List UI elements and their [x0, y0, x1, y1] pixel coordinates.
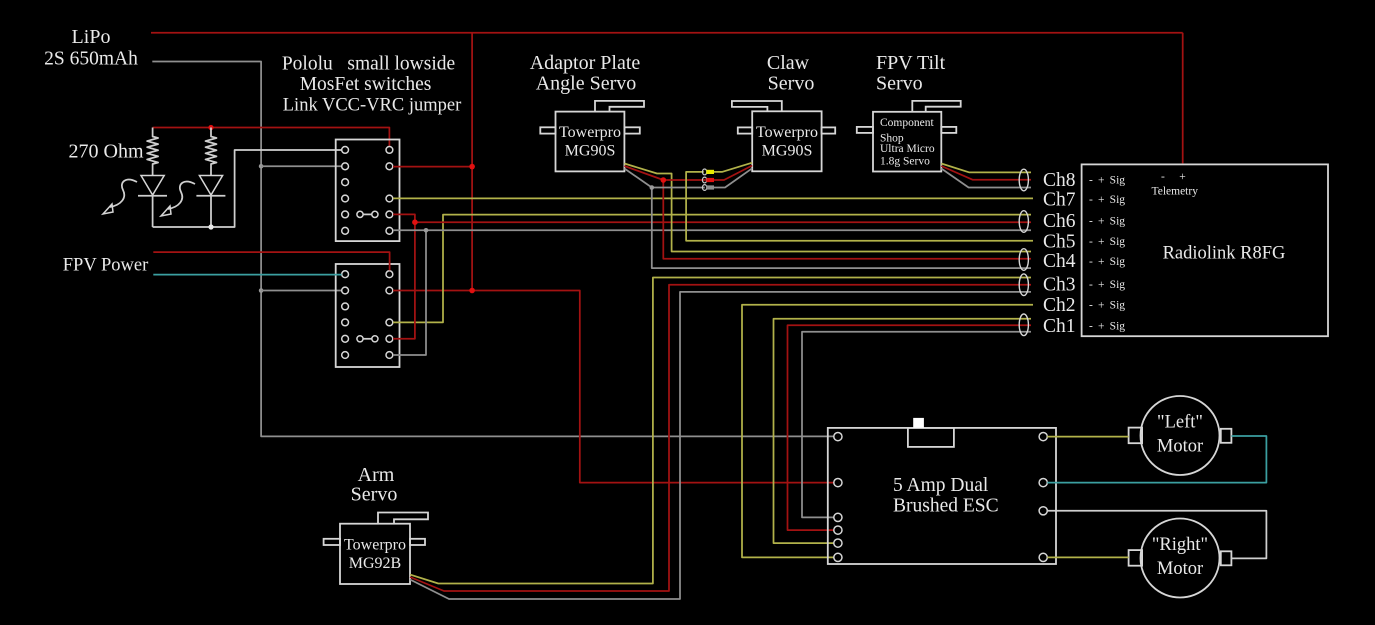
svg-text:FPV Tilt: FPV Tilt	[876, 52, 946, 74]
svg-text:"Right": "Right"	[1152, 535, 1208, 555]
motor Left	[1129, 396, 1232, 475]
receiver Radiolink R8FG	[1043, 164, 1328, 337]
svg-text:Towerpro: Towerpro	[756, 124, 818, 141]
svg-text:- + Sig: - + Sig	[1089, 279, 1125, 291]
svg-text:Telemetry: Telemetry	[1152, 186, 1199, 198]
svg-text:"Left": "Left"	[1157, 413, 1203, 433]
wire telemetry + from LiPo rail	[1182, 33, 1184, 164]
wire Ch7 signal	[393, 197, 1033, 199]
wire claw servo -	[714, 168, 752, 187]
svg-text:- + Sig: - + Sig	[1089, 256, 1125, 268]
wire arm servo - to Ch3	[410, 292, 1031, 599]
svg-text:Ch2: Ch2	[1043, 295, 1076, 316]
svg-text:- + Sig: - + Sig	[1089, 174, 1125, 186]
LED D2 emission arrow	[161, 182, 195, 216]
connector pin claw signal	[702, 169, 714, 175]
svg-text:MG90S: MG90S	[762, 143, 813, 160]
wire FPV power teal	[153, 274, 341, 276]
svg-text:Servo: Servo	[876, 73, 923, 95]
svg-text:Ch3: Ch3	[1043, 275, 1076, 296]
ESC switch	[913, 418, 924, 428]
svg-text:Claw: Claw	[767, 52, 810, 74]
svg-text:Ultra Micro: Ultra Micro	[880, 143, 935, 155]
wire FPV tilt - to Ch8	[941, 169, 1031, 188]
motor Right	[1129, 519, 1232, 598]
label FPV Tilt Servo	[876, 52, 946, 95]
servo U3 Towerpro MG90S (adaptor plate)	[540, 101, 644, 171]
wire Ch6 + linking both jumper pins	[393, 214, 1031, 338]
wire Ch1 signal to ESC	[774, 319, 1032, 543]
svg-text:Ch7: Ch7	[1043, 190, 1076, 211]
svg-text:- + Sig: - + Sig	[1089, 321, 1125, 333]
svg-text:1.8g Servo: 1.8g Servo	[880, 156, 930, 168]
svg-text:LiPo: LiPo	[72, 26, 111, 48]
svg-text:MG92B: MG92B	[349, 555, 401, 572]
resistor R1 270 Ohm	[147, 128, 158, 176]
svg-text:Brushed ESC: Brushed ESC	[893, 496, 999, 517]
wire LED supply rail	[153, 128, 390, 147]
label Claw Servo	[767, 52, 814, 95]
wire arm servo signal to Ch3	[410, 278, 1031, 584]
svg-text:2S 650mAh: 2S 650mAh	[44, 49, 138, 70]
wire Ch6 -	[393, 230, 1031, 355]
connector pin claw -	[702, 185, 714, 191]
connector plug Ch1	[1019, 314, 1028, 336]
svg-text:Adaptor Plate: Adaptor Plate	[530, 52, 641, 74]
svg-text:Servo: Servo	[351, 484, 398, 506]
svg-text:FPV Power: FPV Power	[63, 256, 149, 276]
wire VCC drop to boards	[471, 33, 473, 291]
svg-text:Ch8: Ch8	[1043, 170, 1076, 191]
svg-text:Ch1: Ch1	[1043, 316, 1076, 337]
wire Ch6 signal from board U2	[393, 215, 1031, 323]
wire FPV tilt signal to Ch8	[941, 164, 1031, 173]
wire arm servo + to Ch3	[410, 285, 1031, 591]
svg-text:5 Amp Dual: 5 Amp Dual	[893, 475, 989, 496]
svg-text:Ch5: Ch5	[1043, 231, 1076, 252]
ESC 5 Amp Dual Brushed	[828, 418, 1056, 564]
label Arm Servo	[351, 464, 398, 506]
Pololu MosFet switch board U1	[336, 140, 400, 242]
battery LiPo label	[44, 26, 138, 70]
jumper VCC-VRC board U2	[357, 336, 378, 342]
wire FPV power red	[153, 252, 389, 270]
wire LED cathode rail to board1 output	[153, 150, 342, 227]
wire claw servo +	[714, 166, 752, 181]
wire claw servo signal to Ch5	[686, 163, 1033, 241]
connector pin claw +	[702, 177, 714, 183]
wire LiPo positive rail	[151, 32, 1183, 34]
wire Ch1 + to ESC	[788, 325, 1032, 530]
svg-text:- +: - +	[1161, 171, 1186, 183]
node servo - junction	[650, 185, 655, 190]
resistor R2 270 Ohm	[206, 128, 217, 176]
svg-text:270 Ohm: 270 Ohm	[69, 141, 144, 163]
wire ESC M2B to right motor (white)	[1047, 511, 1266, 559]
wire ESC M2A to right motor	[1047, 556, 1128, 558]
wire Ch1 - to ESC	[802, 332, 1031, 518]
Pololu MosFet switch board U2	[336, 264, 400, 367]
servo U6 Towerpro MG92B (arm)	[324, 513, 428, 585]
svg-text:Ch4: Ch4	[1043, 251, 1076, 272]
node servo + junction	[661, 177, 667, 183]
svg-text:Servo: Servo	[768, 73, 815, 95]
svg-text:Towerpro: Towerpro	[559, 124, 621, 141]
node R2 top junction	[208, 125, 213, 130]
node Ch6 + junction	[412, 219, 418, 225]
svg-text:MosFet switches: MosFet switches	[300, 74, 432, 95]
node LiPo- to board1 GND	[259, 164, 342, 169]
svg-text:Motor: Motor	[1157, 559, 1203, 579]
wire adaptor servo + to Ch4	[624, 166, 1031, 259]
LED D2	[196, 176, 225, 228]
wire adaptor servo - to Ch4	[624, 169, 1031, 269]
wire ESC M1A to left motor	[1047, 436, 1128, 438]
node VCC board1	[469, 164, 475, 170]
svg-text:- + Sig: - + Sig	[1089, 216, 1125, 228]
svg-text:- + Sig: - + Sig	[1089, 300, 1125, 312]
servo U5 Component Shop Ultra Micro 1.8g	[857, 101, 961, 172]
node LiPo- to board2 GND	[259, 288, 342, 293]
connector plug Ch3	[1019, 274, 1028, 296]
jumper VCC-VRC board U1	[357, 211, 378, 217]
svg-text:Radiolink R8FG: Radiolink R8FG	[1163, 244, 1286, 264]
Pololu boards label	[282, 54, 461, 116]
wire FPV tilt + to Ch8	[941, 166, 1031, 180]
connector plug Ch6	[1019, 211, 1028, 233]
wire LiPo negative	[152, 62, 833, 437]
connector plug Ch4	[1019, 249, 1028, 271]
svg-text:Component: Component	[880, 117, 934, 129]
svg-text:Angle Servo: Angle Servo	[536, 73, 637, 95]
svg-text:MG90S: MG90S	[565, 143, 616, 160]
connector plug Ch8	[1019, 169, 1028, 191]
label Adaptor Plate Angle Servo	[530, 52, 641, 95]
svg-text:- + Sig: - + Sig	[1089, 236, 1125, 248]
svg-text:- + Sig: - + Sig	[1089, 194, 1125, 206]
svg-text:Pololu small lowside: Pololu small lowside	[282, 54, 455, 75]
node VCC board2	[469, 288, 475, 294]
svg-text:Link VCC-VRC jumper: Link VCC-VRC jumper	[283, 96, 462, 116]
node Ch6 - junction	[424, 228, 429, 233]
svg-text:Ch6: Ch6	[1043, 211, 1076, 232]
wire adaptor servo signal to Ch4	[624, 164, 1031, 252]
wire ESC M1B to left motor (teal)	[1047, 436, 1266, 483]
servo U4 Towerpro MG90S (claw)	[732, 101, 835, 171]
LED D1	[138, 176, 167, 228]
wire board1 VCC stub	[393, 166, 472, 168]
svg-text:Motor: Motor	[1157, 437, 1203, 457]
LED D1 emission arrow	[103, 180, 137, 214]
svg-text:Towerpro: Towerpro	[344, 537, 406, 554]
wire Ch2 signal to ESC	[742, 305, 1033, 558]
node D2 cathode junction	[208, 224, 213, 229]
receiver telemetry port label	[1152, 171, 1199, 198]
wire VCC to ESC battery +	[393, 291, 834, 483]
